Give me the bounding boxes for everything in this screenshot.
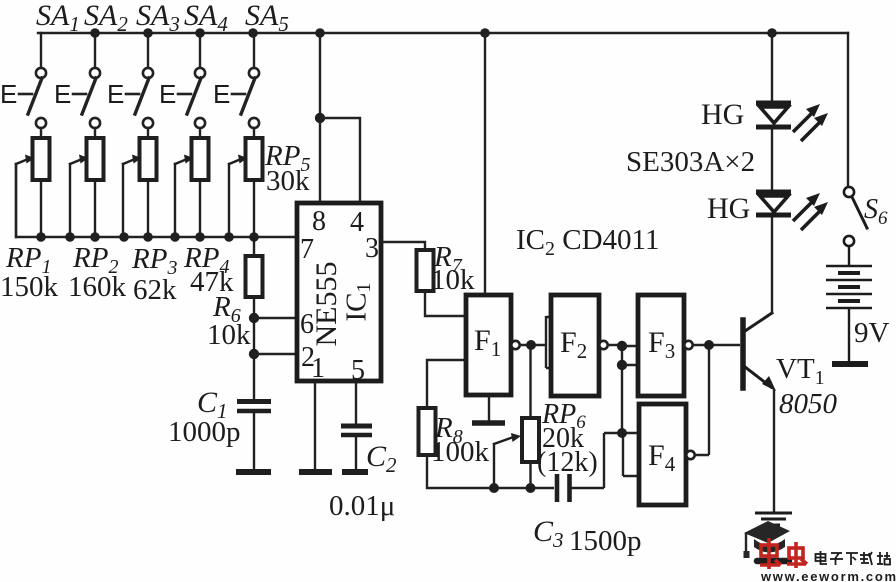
node F1 out [526, 340, 536, 350]
wire F3 out to VT1 base [693, 344, 740, 346]
svg-text:8: 8 [312, 206, 326, 237]
svg-text:7: 7 [300, 234, 314, 265]
wire pin2 [254, 353, 297, 355]
svg-text:4: 4 [350, 207, 364, 238]
wire pin4 [320, 118, 360, 203]
svg-text:E: E [107, 79, 124, 109]
node RP6 bottom bus [526, 483, 536, 493]
svg-text:1000p: 1000p [168, 416, 241, 448]
capacitor C3 [557, 474, 604, 502]
ground bar pin1 [299, 469, 332, 475]
wire F2 out to F3 [608, 345, 638, 433]
gate F1 [466, 295, 511, 395]
svg-text:0.01μ: 0.01μ [329, 490, 395, 522]
ground bar under F1 [472, 420, 505, 426]
potentiometer RP4 [175, 138, 209, 237]
transistor Q1 VT1 8050 [743, 313, 776, 391]
wire wiper bus to pin7 [16, 164, 297, 237]
resistor R8 [419, 408, 436, 455]
output bubble F4 [686, 451, 694, 459]
switch SA4 [178, 33, 205, 138]
svg-text:10k: 10k [431, 264, 475, 296]
node pin8/pin4 branch [315, 113, 325, 123]
light arrows LED2 [793, 193, 828, 230]
svg-text:SE303A×2: SE303A×2 [626, 146, 755, 178]
svg-text:SA3: SA3 [136, 0, 180, 36]
wire pin6 [254, 317, 297, 319]
LED HG upper [756, 103, 791, 127]
svg-text:SA2: SA2 [84, 0, 128, 36]
svg-text:C2: C2 [366, 440, 397, 477]
svg-text:100k: 100k [431, 436, 490, 468]
node pin2 tap [249, 349, 259, 359]
svg-text:E: E [159, 79, 176, 109]
node RP6 wiper bus [489, 483, 499, 493]
gate F4 [639, 404, 686, 505]
watermark site name characters [816, 551, 891, 565]
svg-text:F3: F3 [648, 326, 675, 363]
svg-text:62k: 62k [133, 274, 177, 306]
wire right edge drop to S6 [847, 33, 849, 187]
svg-text:SA1: SA1 [36, 0, 80, 36]
svg-text:5: 5 [351, 355, 365, 386]
wire F4 out up to base node [695, 345, 709, 455]
svg-text:S6: S6 [864, 194, 888, 229]
potentiometer RP3 [123, 138, 157, 237]
svg-text:NE555: NE555 [310, 262, 343, 347]
svg-text:C3: C3 [533, 515, 564, 552]
output bubble F3 [684, 341, 692, 349]
node F3 input a [617, 341, 627, 351]
potentiometer RP6 [494, 345, 539, 488]
svg-text:E: E [0, 79, 17, 109]
svg-text:150k: 150k [0, 271, 59, 303]
battery 9V [826, 266, 872, 364]
potentiometer RP5 [229, 138, 263, 237]
svg-text:HG: HG [701, 98, 744, 131]
svg-text:(12k): (12k) [537, 447, 598, 478]
gate F3 [638, 295, 684, 396]
op-amp timer U1 NE555 box [297, 203, 381, 381]
capacitor C1 [237, 402, 271, 471]
wire pin1 to ground [314, 381, 316, 470]
svg-text:HG: HG [707, 192, 750, 225]
switch S6 [844, 187, 867, 264]
wire pin3 to R7 [381, 242, 425, 250]
wire pin8 from bus [319, 33, 321, 203]
wire F2 tied inputs [546, 316, 551, 368]
svg-text:1: 1 [311, 353, 325, 384]
output bubble F1 [511, 341, 519, 349]
node base junction [704, 340, 714, 350]
ground bar under C2 [342, 469, 368, 475]
wire F1 lower input to R8 [427, 360, 466, 408]
capacitor C2 [341, 426, 372, 470]
switch SA3 [126, 33, 153, 138]
svg-text:F1: F1 [474, 324, 501, 361]
svg-text:SA4: SA4 [184, 0, 228, 36]
svg-text:8050: 8050 [779, 388, 838, 420]
svg-text:30k: 30k [266, 165, 310, 197]
node F3 input b [617, 360, 627, 370]
LED HG lower [756, 192, 791, 215]
svg-text:1500p: 1500p [569, 525, 642, 557]
potentiometer RP2 [70, 138, 104, 237]
junction dots on top bus [90, 28, 777, 38]
node F4 input [617, 428, 627, 438]
switch SA1 [19, 33, 46, 138]
switch SA2 [73, 33, 100, 138]
node pin6 tap [249, 313, 259, 323]
svg-text:www.eeworm.com: www.eeworm.com [760, 569, 896, 582]
gate F2 [551, 295, 599, 396]
resistor R6 [246, 237, 263, 399]
wire bus to F1 [484, 33, 486, 295]
wire F1 out to F2 [520, 344, 546, 346]
watermark red chongchong characters [760, 538, 807, 569]
wire top supply bus [38, 32, 848, 34]
wire LED1 to LED2 [771, 129, 773, 190]
wire R7 to F1 input [425, 291, 466, 316]
wire collector [771, 217, 773, 313]
wire pin5 to C2 [355, 381, 357, 424]
svg-text:3: 3 [365, 233, 379, 264]
svg-text:9V: 9V [854, 317, 890, 349]
wire to F4 inputs [604, 433, 639, 488]
switch SA5 [232, 33, 259, 138]
ground bar under C1 [236, 469, 271, 475]
junction dots on wiper bus [36, 232, 259, 242]
svg-text:E: E [213, 79, 230, 109]
watermark graduation cap logo [744, 521, 791, 561]
output bubble F2 [599, 341, 607, 349]
svg-text:IC2 CD4011: IC2 CD4011 [516, 224, 659, 260]
svg-text:IC1: IC1 [341, 283, 375, 322]
wire emitter to ground [773, 389, 775, 512]
potentiometer RP1 [16, 138, 50, 237]
wire F1 ground leg [488, 395, 490, 421]
wire R8 to bottom bus [427, 455, 554, 488]
svg-text:F4: F4 [648, 439, 676, 476]
svg-text:E: E [54, 79, 71, 109]
svg-text:F2: F2 [560, 326, 587, 363]
resistor R7 [417, 250, 434, 291]
light arrows LED1 [793, 104, 828, 141]
svg-text:VT1: VT1 [776, 353, 825, 389]
svg-text:10k: 10k [207, 319, 251, 351]
wire bus to LED1 [771, 33, 773, 101]
ground emitter [755, 513, 792, 525]
svg-text:160k: 160k [68, 271, 127, 303]
